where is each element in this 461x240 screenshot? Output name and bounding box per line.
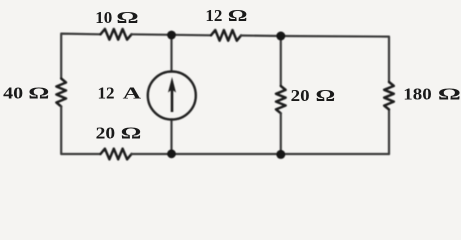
svg-text:Ω: Ω: [121, 124, 142, 143]
svg-text:A: A: [123, 84, 142, 103]
svg-text:Ω: Ω: [438, 85, 461, 104]
label 12 ohm: [205, 6, 247, 25]
current source circle: [148, 72, 196, 120]
label 180 ohm: [403, 84, 461, 103]
svg-text:Ω: Ω: [28, 83, 49, 102]
svg-text:40: 40: [3, 84, 23, 103]
node top-right dot: [276, 32, 285, 41]
resistor 40ohm vertical zigzag: [56, 79, 66, 107]
svg-text:20: 20: [96, 123, 116, 142]
wire middle branch top (node to current source): [170, 35, 172, 72]
label 40 ohm: [3, 83, 49, 102]
wire middle branch bottom (current source to bottom node): [170, 120, 172, 155]
resistor 20ohm bottom zigzag: [101, 149, 132, 160]
svg-text:Ω: Ω: [316, 86, 336, 105]
svg-text:Ω: Ω: [116, 8, 138, 27]
label 20 ohm right: [291, 86, 336, 105]
wire left bottom segment: [61, 107, 100, 155]
svg-text:12: 12: [98, 84, 115, 103]
label 20 ohm bottom: [96, 123, 142, 142]
svg-text:12: 12: [205, 6, 222, 25]
node bottom-center dot: [167, 149, 176, 158]
wire right bottom segment: [388, 110, 390, 155]
svg-text:10: 10: [95, 8, 112, 27]
resistor 180ohm vertical zigzag: [384, 82, 394, 110]
resistor 12ohm zigzag: [211, 30, 241, 41]
wire right-middle branch bottom: [280, 113, 282, 154]
node bottom-right dot: [276, 150, 285, 159]
label 10 ohm: [95, 8, 138, 27]
label 12 A: [98, 84, 142, 103]
wire top-right segment: [241, 36, 389, 83]
svg-text:20: 20: [291, 86, 310, 105]
wire top between 10ohm and 12ohm: [132, 34, 212, 35]
resistor 10ohm zigzag: [101, 29, 132, 40]
current source arrow: [168, 77, 176, 112]
wire right-middle branch top: [280, 36, 282, 86]
wire bottom segment: [132, 153, 390, 155]
svg-text:180: 180: [403, 84, 431, 103]
svg-text:Ω: Ω: [228, 6, 248, 25]
wire top-left segment: [61, 34, 100, 79]
resistor 20ohm vertical zigzag: [276, 86, 286, 113]
node top-center dot: [167, 31, 176, 40]
